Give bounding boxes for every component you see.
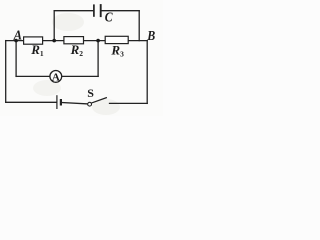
wire ammeter branch horizontal — [16, 75, 98, 77]
switch S pivot circle — [88, 102, 92, 106]
junction dot R2-R3 / ammeter — [96, 39, 100, 43]
svg-text:C: C — [105, 11, 113, 26]
node A junction dot — [14, 39, 18, 43]
wire right branch down from B — [146, 41, 148, 104]
wire capacitor right plate to corner — [102, 10, 140, 12]
resistor R1 — [24, 37, 43, 44]
junction dot capacitor left — [52, 39, 56, 43]
wire battery to switch — [62, 103, 88, 104]
wire left branch down — [5, 41, 7, 103]
battery short plate — [60, 99, 62, 106]
wire capacitor branch up — [53, 11, 55, 41]
wire ammeter branch up to R2-R3 junction — [97, 41, 99, 77]
wire middle A to B — [6, 40, 148, 42]
ammeter U1 circle — [50, 71, 62, 83]
resistor R3 — [105, 36, 128, 43]
battery long plate — [56, 95, 58, 109]
switch S lever — [91, 98, 107, 104]
capacitor C plates — [94, 4, 101, 17]
wire bottom left to battery — [6, 101, 57, 103]
wire ammeter branch down from node A — [15, 41, 17, 77]
svg-text:S: S — [87, 86, 94, 100]
wire switch to right corner — [110, 102, 148, 104]
wire capacitor branch down to node B — [138, 11, 140, 41]
svg-text:A: A — [13, 28, 22, 43]
wire top to capacitor left plate — [54, 10, 93, 12]
svg-text:A: A — [52, 71, 60, 83]
svg-text:B: B — [146, 29, 155, 44]
resistor R2 — [64, 37, 84, 44]
